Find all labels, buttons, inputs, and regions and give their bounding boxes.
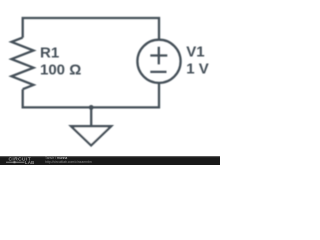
voltage source V1 (circle body) bbox=[137, 40, 180, 83]
ground (triangle) bbox=[71, 126, 111, 145]
svg-text:LAB: LAB bbox=[25, 160, 35, 165]
wire: bottom rail bbox=[23, 83, 159, 107]
svg-text:100 Ω: 100 Ω bbox=[40, 62, 81, 79]
svg-text:V1: V1 bbox=[186, 44, 204, 61]
svg-text:http://circuitlab.com/c/nzamnb: http://circuitlab.com/c/nzamnbn bbox=[45, 160, 92, 164]
voltage source V1 plus sign bbox=[150, 47, 167, 65]
resistor R1 (zigzag body) bbox=[12, 38, 34, 90]
wire: top rail from left branch to right branch bbox=[23, 18, 159, 40]
svg-text:1 V: 1 V bbox=[186, 61, 209, 78]
watermark bar bbox=[0, 156, 220, 165]
ground (stub wire) bbox=[90, 107, 92, 126]
node junction dot bbox=[89, 105, 94, 110]
svg-text:R1: R1 bbox=[40, 44, 59, 61]
voltage source V1 minus sign bbox=[150, 71, 166, 73]
